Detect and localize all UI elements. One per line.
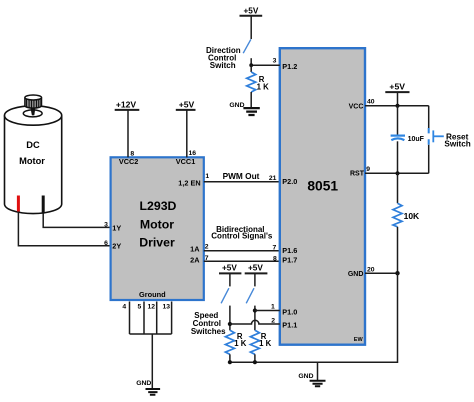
wire P1.0: [255, 310, 280, 312]
svg-text:VCC2: VCC2: [119, 157, 138, 166]
svg-text:+5V: +5V: [248, 264, 263, 273]
svg-text:+5V: +5V: [222, 264, 237, 273]
svg-text:21: 21: [269, 175, 277, 182]
svg-text:3: 3: [104, 222, 108, 229]
svg-text:7: 7: [273, 244, 277, 251]
svg-text:10uF: 10uF: [408, 136, 425, 143]
wire VCC pin 40 to reset branch: [365, 105, 429, 107]
svg-text:1A: 1A: [190, 244, 200, 253]
svg-text:1Y: 1Y: [112, 224, 121, 233]
svg-text:P1.1: P1.1: [282, 320, 297, 329]
wire +5V to VCC1 pin 16: [186, 110, 188, 157]
junction VCC node: [396, 104, 400, 108]
svg-text:GND: GND: [136, 380, 151, 387]
svg-text:8: 8: [130, 151, 134, 158]
svg-text:1: 1: [271, 304, 275, 311]
wire 1A pin 2 to P1.6 pin 7: [204, 250, 280, 252]
svg-text:13: 13: [162, 303, 170, 310]
svg-text:+5V: +5V: [389, 82, 405, 92]
ground bus under L293D: [130, 333, 172, 335]
svg-text:2: 2: [271, 317, 275, 324]
svg-text:5: 5: [138, 303, 142, 310]
svg-text:40: 40: [367, 99, 375, 106]
speed control switch S2 (left) blade: [221, 288, 229, 303]
svg-text:DC: DC: [26, 140, 40, 150]
wire P1.1 with hop over right wire: [230, 320, 280, 324]
reset branch right wire upper: [428, 106, 430, 129]
wire +5V to switch: [250, 16, 252, 39]
wire red lead to 2Y pin 6: [18, 212, 110, 246]
wire switch to node: [250, 58, 252, 65]
wire 2A pin 7 to P1.7 pin 8: [204, 260, 280, 262]
svg-text:20: 20: [367, 266, 375, 273]
wire +12V to VCC2 pin 8: [127, 110, 129, 157]
svg-text:4: 4: [122, 303, 126, 310]
wire bus to bottom ground: [317, 362, 319, 380]
svg-text:GND: GND: [348, 271, 364, 278]
resistor 10K: [393, 203, 402, 227]
svg-text:P1.6: P1.6: [282, 246, 297, 255]
svg-text:9: 9: [366, 166, 370, 173]
svg-text:1 K: 1 K: [257, 83, 270, 92]
svg-text:PWM Out: PWM Out: [223, 171, 260, 181]
wire node to capacitor: [397, 106, 399, 135]
reset branch right wire lower: [428, 145, 430, 174]
svg-text:8051: 8051: [307, 179, 338, 194]
wire +5V down to VCC line: [397, 92, 399, 106]
svg-text:6: 6: [104, 240, 108, 247]
svg-text:P2.0: P2.0: [282, 177, 297, 186]
L293D ground pins 4,5,12,13: [130, 302, 172, 335]
speed control switch S3 (right) blade: [246, 288, 254, 303]
direction control switch S1 blade: [243, 39, 251, 53]
junction P1.1 node: [228, 322, 232, 326]
svg-text:EW: EW: [354, 337, 364, 343]
svg-text:Motor: Motor: [19, 156, 45, 166]
svg-text:2A: 2A: [190, 255, 200, 264]
junction right resistor bus: [253, 360, 257, 364]
resistor R 1K (left): [225, 330, 234, 354]
svg-text:Driver: Driver: [139, 236, 175, 250]
svg-text:Ground: Ground: [139, 290, 166, 299]
svg-text:16: 16: [189, 150, 197, 157]
wire 10K to GND node: [397, 227, 399, 273]
svg-text:GND: GND: [298, 373, 313, 380]
svg-text:+12V: +12V: [116, 100, 137, 110]
svg-text:1,2 EN: 1,2 EN: [178, 179, 200, 188]
junction RST node: [395, 171, 399, 175]
svg-text:Switch: Switch: [444, 139, 470, 148]
svg-text:P1.2: P1.2: [282, 62, 297, 71]
svg-text:8: 8: [273, 255, 277, 262]
ground symbol (bottom): [310, 381, 326, 386]
L293D U1: [111, 157, 204, 300]
wire PWM Out: 1,2 EN pin 1 to P2.0 pin 21: [204, 181, 280, 183]
svg-text:2Y: 2Y: [112, 242, 121, 251]
8051 U2: [280, 48, 365, 345]
wire +5V to left switch: [229, 273, 231, 286]
svg-text:1 K: 1 K: [259, 339, 272, 348]
svg-text:3: 3: [273, 58, 277, 65]
svg-text:L293D: L293D: [140, 199, 177, 213]
junction left resistor bus: [228, 360, 232, 364]
svg-text:Switches: Switches: [191, 327, 226, 336]
svg-text:7: 7: [205, 255, 209, 262]
ground symbol (L293D): [146, 389, 161, 395]
svg-text:12: 12: [147, 303, 155, 310]
wire resistor to ground: [250, 92, 252, 107]
svg-text:10K: 10K: [404, 211, 420, 221]
svg-text:GND: GND: [229, 102, 244, 109]
wire +5V to right switch: [254, 273, 256, 286]
DC motor M1 body: [4, 106, 61, 214]
resistor R 1K (right): [250, 330, 259, 354]
svg-text:1: 1: [205, 173, 209, 180]
wire left resistor to bus: [229, 354, 231, 362]
junction P1.0 node: [253, 308, 257, 312]
svg-text:1 K: 1 K: [234, 339, 247, 348]
motor red lead: [17, 196, 20, 212]
svg-text:Control Signal's: Control Signal's: [211, 231, 273, 240]
motor shaft: [30, 108, 35, 116]
svg-text:VCC1: VCC1: [176, 157, 195, 166]
wire RST node down to 10K: [397, 173, 399, 203]
motor knob: [25, 95, 42, 108]
wire right switch down: [254, 306, 256, 331]
wire right resistor to bus: [254, 354, 256, 362]
svg-text:RST: RST: [350, 171, 365, 178]
wire capacitor to RST line: [397, 141, 399, 173]
motor black lead: [42, 196, 45, 214]
svg-text:Motor: Motor: [140, 218, 174, 232]
motor top hole: [23, 110, 42, 117]
wire node to P1.2 pin 3: [251, 64, 280, 66]
wire black lead to 1Y pin 3: [43, 214, 110, 228]
reset switch S4: [429, 128, 444, 145]
wire GND node to bottom bus: [230, 273, 398, 362]
svg-text:P1.7: P1.7: [282, 256, 297, 265]
svg-text:2: 2: [205, 244, 209, 251]
svg-text:+5V: +5V: [179, 100, 195, 110]
junction GND node: [395, 271, 399, 275]
svg-text:Switch: Switch: [210, 61, 236, 70]
svg-text:P1.0: P1.0: [282, 308, 297, 317]
node junction: [249, 63, 253, 67]
wire left switch down: [229, 306, 231, 331]
ground symbol (direction): [243, 108, 259, 115]
wire bus to ground: [151, 334, 153, 388]
resistor R 1K (direction): [247, 72, 256, 92]
wire RST pin 9: [365, 172, 429, 174]
svg-text:VCC: VCC: [349, 104, 364, 111]
wire node to resistor: [250, 65, 252, 72]
svg-text:+5V: +5V: [244, 6, 259, 15]
wire GND pin 20: [365, 272, 398, 274]
capacitor C1 10uF: [391, 135, 405, 137]
